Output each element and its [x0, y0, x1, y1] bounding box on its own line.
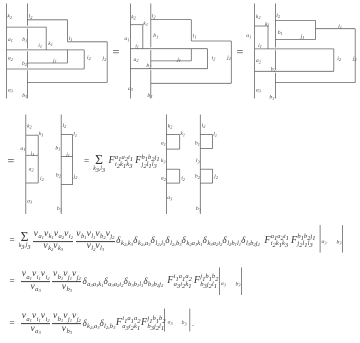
svg-text:j2: j2 [352, 56, 357, 62]
wire l2 horizontal D1 [27, 19, 67, 21]
node equation line 2 [9, 271, 219, 293]
wire l2 box top D3 [275, 20, 315, 22]
svg-text:l2: l2 [152, 13, 156, 19]
svg-text:.: . [192, 320, 194, 328]
wire b-line D1 mid1 [26, 29, 28, 49]
svg-text:k1: k1 [39, 131, 44, 137]
wire j2 vertical D2 [230, 41, 232, 83]
svg-text:k1: k1 [265, 21, 270, 27]
wire j1 horizontal D2 [151, 60, 192, 62]
wire i1 divider D4 [26, 154, 38, 156]
wire l1 horizontal D3 [316, 28, 356, 30]
wire i2 vertical D2 [207, 49, 209, 69]
wire ket bar b3 line2 [241, 267, 243, 295]
svg-text:l2: l2 [276, 13, 280, 19]
wire l2 horizontal D2 [151, 19, 192, 21]
svg-text:a1: a1 [246, 33, 251, 39]
svg-text:i2: i2 [181, 176, 185, 182]
wire k1 vertical D1 [45, 27, 47, 50]
wire k1 box top D3 [255, 25, 268, 27]
svg-text:k2: k2 [131, 14, 136, 20]
svg-text:k3: k3 [161, 158, 166, 164]
svg-text:b2: b2 [271, 66, 276, 72]
wire big box bottom D1 [7, 68, 85, 70]
node equation line 3 [9, 313, 166, 335]
svg-text:i2: i2 [212, 55, 216, 61]
wire l1-j2 horizontal D2 [191, 40, 231, 42]
wire ket bar a3 line1 [319, 225, 321, 253]
node equals sign row2 before D4 [7, 155, 14, 168]
svg-text:b3: b3 [337, 240, 342, 246]
svg-text:j1: j1 [52, 58, 57, 64]
wire j1 horizontal D1 [27, 62, 67, 64]
svg-text:b1: b1 [55, 145, 60, 151]
wire a-line D2 [129, 4, 131, 99]
svg-text:j2: j2 [73, 174, 78, 180]
wire big box top D3 [255, 48, 334, 50]
wire l1 box right vertical D5 [212, 135, 214, 149]
svg-text:j2: j2 [213, 174, 218, 180]
wire b-line D3 lower [274, 73, 276, 99]
wire a-strand D5 [165, 115, 167, 215]
wire ket bar b3 line3 [189, 309, 191, 332]
wire b-box bottom D4 [61, 184, 72, 186]
wire big box top D1 [7, 49, 85, 51]
wire big box bottom D3 [255, 70, 334, 72]
svg-text:a1: a1 [124, 36, 129, 42]
wire k1 vertical D3 [267, 26, 269, 49]
svg-text:b2: b2 [195, 174, 200, 180]
wire b-line D3 upper [274, 4, 276, 48]
wire ket bar a3 line2 [219, 267, 221, 295]
wire l1-j2 horizontal D1 [68, 41, 108, 43]
svg-text:i1: i1 [258, 43, 262, 49]
wire j2 return horizontal D3 [275, 82, 355, 84]
svg-text:i1: i1 [38, 43, 42, 49]
svg-text:a3: a3 [167, 195, 172, 201]
svg-text:a2: a2 [134, 57, 139, 63]
svg-text:l1: l1 [73, 132, 77, 138]
wire j2 box bottom D5 [200, 182, 212, 184]
wire l1 box top D5 [200, 134, 212, 136]
wire ket bar a3 line3 [163, 309, 165, 332]
svg-text:j1: j1 [65, 152, 70, 158]
svg-text:j2: j2 [226, 55, 231, 61]
wire b-box right vertical D4 [72, 135, 74, 185]
wire a-box top D4 [26, 134, 38, 136]
wire b-line D2 lower [150, 70, 152, 98]
svg-text:a1: a1 [8, 37, 13, 43]
svg-text:b3: b3 [236, 282, 241, 288]
svg-text:l1: l1 [193, 33, 197, 39]
svg-text:k1: k1 [48, 41, 53, 47]
svg-text:a3: a3 [27, 198, 32, 204]
svg-text:l2: l2 [63, 123, 67, 129]
svg-text:l1: l1 [69, 36, 73, 42]
wire j1 vertical D1 [67, 50, 69, 63]
svg-text:b1: b1 [195, 141, 200, 147]
wire k1 box top D2 [130, 24, 142, 26]
wire l1 vertical D2 [190, 20, 192, 41]
wire i2 box bottom D5 [166, 182, 179, 184]
svg-text:j1: j1 [176, 57, 181, 63]
svg-text:k1: k1 [180, 131, 185, 137]
svg-text:l1: l1 [338, 24, 342, 30]
wire k1 box top D5 [166, 134, 179, 136]
node equation line 1 [9, 230, 316, 252]
svg-text:i2: i2 [40, 176, 44, 182]
wire a-box bottom D4 [26, 182, 38, 184]
wire k1 box top D1 [7, 26, 47, 28]
svg-text:b3: b3 [22, 93, 27, 99]
wire b-box top D4 [61, 134, 72, 136]
wire j2 vertical D3 [354, 29, 356, 83]
wire i2 box top D5 [166, 168, 179, 170]
wire a-strand D4 [25, 115, 27, 215]
svg-text:l3: l3 [196, 158, 200, 164]
wire k1 vertical D2 [142, 25, 144, 49]
svg-text:a1: a1 [161, 141, 166, 147]
svg-text:a2: a2 [29, 166, 34, 172]
svg-text:j1: j1 [300, 34, 305, 40]
svg-text:a3: a3 [8, 87, 13, 93]
wire j1 divider D4 [61, 155, 72, 157]
wire j1 vertical D2 [190, 49, 192, 61]
svg-text:a3: a3 [322, 239, 327, 245]
wire b-line D1 lower [26, 70, 28, 98]
wire l1 vertical D1 [67, 20, 69, 42]
wire l1 box bottom D5 [200, 148, 212, 150]
wire b-line D1 upper [26, 4, 28, 26]
svg-text:j2: j2 [102, 56, 107, 62]
wire l2 box right vertical D3 [315, 21, 317, 40]
svg-text:b3: b3 [182, 320, 187, 326]
wire b-line D2 upper [150, 4, 152, 48]
wire i2 vertical D3 [333, 49, 335, 71]
svg-text:a3: a3 [168, 320, 173, 326]
svg-text:b2: b2 [56, 172, 61, 178]
wire j2 box top D5 [200, 168, 212, 170]
wire i2 box right vertical D5 [179, 169, 181, 183]
svg-text:a3: a3 [256, 87, 261, 93]
svg-text:b1: b1 [153, 33, 158, 39]
node row2 equation = sum F F [83, 153, 160, 171]
wire j2 return horizontal D1 [27, 82, 107, 84]
wire b-strand D5 [199, 115, 201, 215]
wire a-line D3 [254, 4, 256, 99]
wire big box bottom D2 [130, 68, 207, 70]
svg-text:l2: l2 [202, 123, 206, 129]
svg-text:b3: b3 [269, 95, 274, 101]
svg-text:k1: k1 [143, 21, 148, 27]
wire j2 return horizontal D2 [151, 82, 232, 84]
node equals sign row1 between D1 and D2 [112, 46, 119, 59]
svg-text:b3: b3 [57, 206, 62, 212]
svg-text:a2: a2 [256, 58, 261, 64]
svg-text:a3: a3 [128, 86, 133, 92]
wire a-line D1 [6, 4, 8, 99]
svg-text:k2: k2 [168, 123, 173, 129]
wire j2 vertical D1 [106, 42, 108, 83]
wire i2 vertical D1 [83, 50, 85, 69]
svg-text:b1: b1 [22, 37, 27, 43]
svg-text:a3: a3 [221, 281, 226, 287]
svg-text:i2: i2 [337, 56, 341, 62]
wire b-line D1 mid2 [26, 51, 28, 67]
wire ket bar b3 line1 [342, 225, 344, 253]
svg-text:b2: b2 [22, 61, 27, 67]
svg-text:a2: a2 [161, 176, 166, 182]
svg-text:k2: k2 [27, 123, 32, 129]
node equals sign row1 between D2 and D3 [236, 46, 243, 59]
svg-text:b3: b3 [147, 93, 152, 99]
wire l2 box bottom D3 [275, 39, 315, 41]
svg-text:i1: i1 [31, 151, 35, 157]
wire big box top D2 [130, 48, 207, 50]
wire b-strand D4 [60, 115, 62, 215]
svg-text:l1: l1 [213, 132, 217, 138]
svg-text:b2: b2 [146, 63, 151, 69]
wire k1 box bottom D5 [166, 148, 179, 150]
svg-text:a2: a2 [8, 56, 13, 62]
svg-text:k2: k2 [7, 14, 12, 20]
svg-text:k2: k2 [256, 14, 261, 20]
svg-text:a1: a1 [20, 146, 25, 152]
svg-text:l2: l2 [29, 14, 33, 20]
wire a-box right vertical D4 [37, 135, 39, 183]
wire k1 box right vertical D5 [179, 135, 181, 150]
wire b-line D2 mid [150, 50, 152, 67]
svg-text:i1: i1 [135, 43, 139, 49]
wire b-line D3 mid [274, 50, 276, 70]
svg-text:b3: b3 [196, 206, 201, 212]
svg-text:b1: b1 [278, 30, 283, 36]
svg-text:i2: i2 [87, 55, 91, 61]
wire j2 box right vertical D5 [212, 169, 214, 183]
